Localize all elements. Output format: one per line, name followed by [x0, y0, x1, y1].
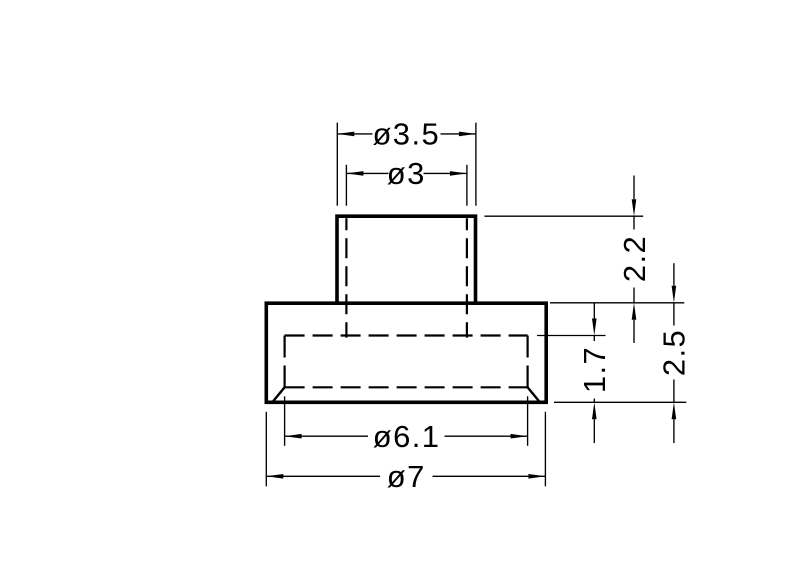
- dimension line Ø3.5: [337, 133, 372, 135]
- chamfer edge right: [528, 387, 540, 401]
- dimension 1.7 upper outside arrow: [593, 304, 595, 319]
- svg-text:2.2: 2.2: [617, 235, 652, 282]
- hidden hole wall right (Ø3 dashed): [466, 218, 468, 337]
- dimension 2.2 upper outside arrow: [633, 176, 635, 200]
- extension line Ø7 right: [544, 412, 546, 487]
- dimension 1.7 lower outside arrow: [592, 402, 597, 419]
- svg-text:ø3: ø3: [387, 156, 426, 191]
- hidden cavity bottom (dashed): [285, 386, 528, 388]
- svg-text:ø3.5: ø3.5: [372, 117, 440, 152]
- extension line Ø3.5 right: [475, 123, 477, 206]
- hidden cavity top (dashed): [285, 334, 528, 336]
- dimension 2.5 line segments: [673, 303, 675, 326]
- dimension 2.2 lower outside arrow: [632, 303, 637, 320]
- extension line neck top right: [484, 215, 643, 217]
- arrowhead Ø3 right: [450, 171, 467, 176]
- neck outline (Ø3.5 boss): [337, 216, 476, 303]
- svg-text:1.7: 1.7: [577, 346, 612, 393]
- extension line Ø6.1 left: [284, 396, 286, 446]
- dimension 1.7 line segments: [593, 336, 595, 342]
- extension line flange bottom right: [554, 401, 686, 403]
- arrowhead Ø7 right: [528, 474, 545, 479]
- dimension 2.5 lower outside arrow: [672, 402, 677, 419]
- dimension line Ø3: [346, 172, 388, 174]
- hidden cavity left wall (dashed): [284, 336, 286, 388]
- dimension 2.2 line segments: [633, 216, 635, 229]
- extension line Ø3 left: [345, 165, 347, 206]
- svg-text:ø6.1: ø6.1: [373, 419, 441, 454]
- chamfer edge left: [273, 387, 285, 401]
- extension line Ø6.1 right: [527, 396, 529, 446]
- svg-text:2.5: 2.5: [657, 329, 692, 376]
- arrowhead Ø3 left: [346, 171, 363, 176]
- extension line cavity top right: [537, 335, 606, 337]
- arrowhead Ø6.1 right: [511, 434, 528, 439]
- arrowhead Ø6.1 left: [285, 434, 302, 439]
- arrowhead Ø3.5 left: [337, 132, 354, 137]
- dimension line Ø6.1: [285, 435, 368, 437]
- dimension 2.5 upper outside arrow: [673, 263, 675, 286]
- extension line flange top right: [550, 302, 684, 304]
- hidden hole wall left (Ø3 dashed): [345, 218, 347, 337]
- flange outline (Ø7 body): [266, 303, 546, 402]
- dimension line Ø7: [266, 475, 380, 477]
- hidden cavity right wall (dashed): [526, 336, 528, 388]
- extension line Ø7 left: [265, 412, 267, 487]
- extension line Ø3.5 left: [336, 123, 338, 206]
- arrowhead Ø3.5 right: [459, 132, 476, 137]
- extension line Ø3 right: [466, 165, 468, 206]
- arrowhead Ø7 left: [266, 474, 283, 479]
- svg-text:ø7: ø7: [387, 459, 426, 494]
